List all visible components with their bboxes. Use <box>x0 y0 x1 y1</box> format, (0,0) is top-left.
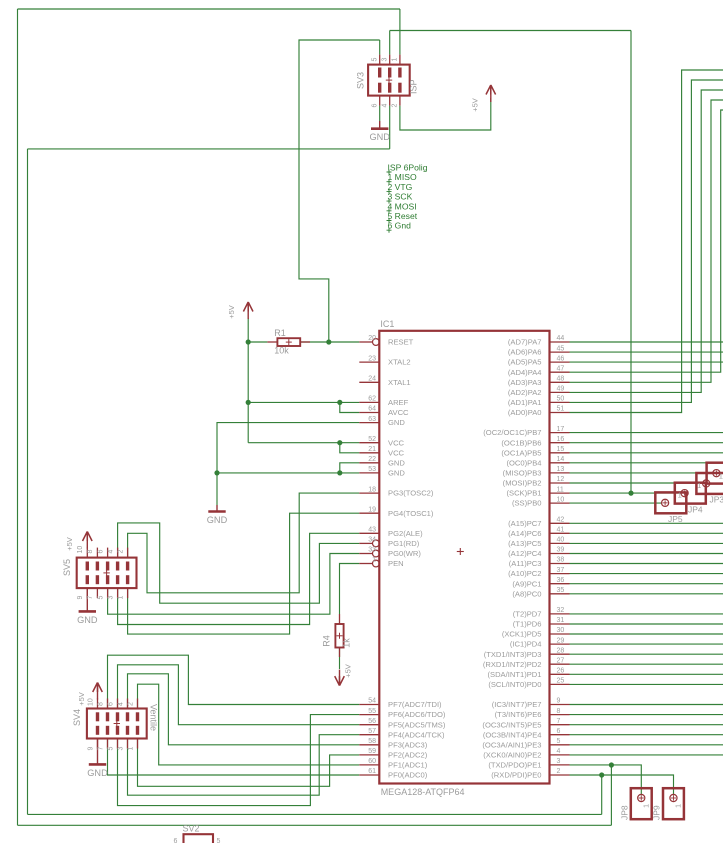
svg-text:5: 5 <box>557 738 561 745</box>
wire net PG2 SV5pin3 <box>118 533 360 624</box>
svg-text:XTAL1: XTAL1 <box>388 378 411 387</box>
svg-text:1: 1 <box>127 747 134 751</box>
junction GND left vertical <box>214 470 219 475</box>
svg-text:39: 39 <box>557 547 565 554</box>
IC1 pin 1 PEN <box>359 557 403 568</box>
SV4 pin number 5 <box>107 747 114 751</box>
svg-text:63: 63 <box>368 416 376 423</box>
svg-text:5: 5 <box>372 58 379 62</box>
IC1 pin 19 PG4(TOSC1) <box>359 506 434 517</box>
svg-text:24: 24 <box>368 376 376 383</box>
R1 name label <box>274 328 286 338</box>
wire PB6 row <box>570 442 723 444</box>
svg-text:1k: 1k <box>342 638 352 648</box>
SV4 value Ventile label <box>149 704 159 731</box>
svg-text:(SDA/INT1)PD1: (SDA/INT1)PD1 <box>487 670 541 679</box>
IC1 pin 21 VCC <box>359 446 404 457</box>
wire PC7 row <box>570 522 723 524</box>
svg-text:XTAL2: XTAL2 <box>388 358 411 367</box>
svg-text:51: 51 <box>557 406 565 413</box>
svg-text:R4: R4 <box>322 635 332 647</box>
svg-text:29: 29 <box>557 637 565 644</box>
svg-text:53: 53 <box>368 466 376 473</box>
IC1 pin 6 (OC3B/INT4)PE4 <box>483 728 570 739</box>
IC1 pin 14 (OC0)PB4 <box>506 456 569 467</box>
IC1 pin 39 (A12)PC4 <box>508 547 569 558</box>
wire net PEN to R4 <box>340 564 360 615</box>
wire PA6 row to edge <box>570 351 723 353</box>
IC1 pin 7 (OC3C/INT5)PE5 <box>482 718 569 729</box>
wire SV3 pin1 to MISO net <box>399 9 401 55</box>
svg-text:38: 38 <box>557 557 565 564</box>
svg-text:(SCL/INT0)PD0: (SCL/INT0)PD0 <box>488 680 541 689</box>
wire VCC row pin52 <box>248 442 359 444</box>
connector SV2 body (clipped) <box>184 834 214 843</box>
svg-text:(AD7)PA7: (AD7)PA7 <box>508 338 542 347</box>
jumper JP8 <box>620 788 652 820</box>
svg-text:(TXD/PDO)PE1: (TXD/PDO)PE1 <box>488 761 541 770</box>
SV4 pin number 10 <box>87 698 94 706</box>
wire net MISO bottom horizontal <box>18 824 612 826</box>
IC1 pin 9 (IC3/INT7)PE7 <box>492 698 570 709</box>
IC1 pin 4 (XCK0/AIN0)PE2 <box>483 748 569 759</box>
svg-text:6 Gnd: 6 Gnd <box>388 221 412 231</box>
svg-text:27: 27 <box>557 657 565 664</box>
wire PD0 row <box>570 683 723 685</box>
jumper JP5 <box>655 491 686 524</box>
svg-text:(A14)PC6: (A14)PC6 <box>508 529 541 538</box>
wire PC3 row <box>570 563 723 565</box>
svg-text:GND: GND <box>369 132 390 142</box>
svg-text:(SCK)PB1: (SCK)PB1 <box>506 489 541 498</box>
svg-text:(A10)PC2: (A10)PC2 <box>508 569 541 578</box>
svg-text:20: 20 <box>368 335 376 342</box>
svg-text:SV2: SV2 <box>183 824 200 834</box>
wire net RESET top horizontal <box>299 40 380 342</box>
svg-text:PG4(TOSC1): PG4(TOSC1) <box>388 509 434 518</box>
svg-text:MEGA128-ATQFP64: MEGA128-ATQFP64 <box>381 787 465 797</box>
SV4 pin number 6 <box>107 702 114 706</box>
svg-text:1 MISO: 1 MISO <box>388 172 417 182</box>
svg-text:55: 55 <box>368 708 376 715</box>
svg-text:(OC3B/INT4)PE4: (OC3B/INT4)PE4 <box>483 730 542 739</box>
svg-text:40: 40 <box>557 537 565 544</box>
svg-text:GND: GND <box>87 768 108 778</box>
wire PA3 row corner <box>570 100 723 382</box>
IC1 pin 2 (RXD/PDI)PE0 <box>491 768 569 779</box>
wire net PG4 SV5pin1 <box>128 513 360 634</box>
svg-text:(AD2)PA2: (AD2)PA2 <box>508 388 542 397</box>
connector SV5 body <box>77 548 137 599</box>
wire net MOSI riser to PE0 row <box>601 775 603 814</box>
wire PC6 row <box>570 532 723 534</box>
+5V supply near ISP <box>471 85 496 112</box>
svg-text:(MOSI)PB2: (MOSI)PB2 <box>503 479 542 488</box>
svg-text:6: 6 <box>107 702 114 706</box>
IC1 pin 3 (TXD/PDO)PE1 <box>488 758 569 769</box>
IC1 pin 22 GND <box>359 456 405 467</box>
wire AVCC drop <box>340 402 360 412</box>
svg-text:56: 56 <box>368 718 376 725</box>
wire net MISO top horizontal <box>18 8 401 10</box>
svg-text:(SS)PB0: (SS)PB0 <box>512 499 542 508</box>
wire PC5 row <box>570 542 723 544</box>
IC1 pin 25 (SCL/INT0)PD0 <box>488 678 569 689</box>
SV5 pin number 6 <box>97 550 104 554</box>
wire GND drop pin22 <box>340 463 360 473</box>
svg-text:5: 5 <box>217 838 221 843</box>
svg-text:(A9)PC1: (A9)PC1 <box>512 579 541 588</box>
wire PB0 row to JP5 <box>570 502 662 504</box>
connector SV3 ISP header body <box>368 55 410 106</box>
svg-text:6: 6 <box>557 728 561 735</box>
wire net MISO riser to PE1 row <box>610 765 612 825</box>
text label 4 MOSI <box>387 201 417 213</box>
svg-text:3: 3 <box>382 58 389 62</box>
svg-text:VCC: VCC <box>388 448 405 457</box>
svg-text:(A13)PC5: (A13)PC5 <box>508 539 541 548</box>
svg-text:(A8)PC0: (A8)PC0 <box>512 589 541 598</box>
wire PE2 row <box>570 754 723 756</box>
svg-text:IC1: IC1 <box>380 319 394 329</box>
SV4 pin number 8 <box>97 702 104 706</box>
svg-text:(RXD/PDI)PE0: (RXD/PDI)PE0 <box>491 771 541 780</box>
IC1 pin 56 PF5(ADC5/TMS) <box>359 718 446 729</box>
wire net MOSI left vertical <box>27 149 29 815</box>
svg-text:30: 30 <box>557 627 565 634</box>
junction MOSI on PE0 row <box>599 772 604 777</box>
text label 5 Reset <box>387 211 418 223</box>
wire net SCK vertical <box>630 31 632 494</box>
IC1 pin 55 PF6(ADC6/TDO) <box>359 708 446 719</box>
svg-text:+5V: +5V <box>65 537 74 551</box>
wire SV3 pin3 to SCK net <box>389 31 391 55</box>
svg-text:+5V: +5V <box>77 692 86 706</box>
wire SV3 pin5 to RESET net <box>379 40 381 55</box>
svg-text:2: 2 <box>127 702 134 706</box>
SV2 name label <box>183 824 200 834</box>
IC1 pin 28 (TXD1/INT3)PD3 <box>484 647 570 658</box>
svg-text:(AD4)PA4: (AD4)PA4 <box>508 368 542 377</box>
wire net MOSI horizontal y149 <box>28 148 390 150</box>
wire PC1 row <box>570 583 723 585</box>
svg-text:35: 35 <box>557 587 565 594</box>
IC1 pin 62 AREF <box>359 396 408 407</box>
svg-text:1: 1 <box>673 804 682 808</box>
IC1 pin 10 (SS)PB0 <box>512 496 570 507</box>
svg-text:36: 36 <box>557 577 565 584</box>
SV5 pin number 3 <box>107 596 114 600</box>
svg-text:5 Reset: 5 Reset <box>388 211 418 221</box>
svg-text:PF3(ADC3): PF3(ADC3) <box>388 740 428 749</box>
wire net PF4 SV4pin3 <box>128 735 360 796</box>
wire PA1 row corner <box>570 80 723 402</box>
svg-text:(OC2/OC1C)PB7: (OC2/OC1C)PB7 <box>483 428 541 437</box>
svg-text:GND: GND <box>388 469 405 478</box>
svg-text:45: 45 <box>557 345 565 352</box>
IC1 pin 5 (OC3A/AIN1)PE3 <box>482 738 569 749</box>
IC1 pin 16 (OC1B)PB6 <box>501 436 569 447</box>
svg-text:22: 22 <box>368 456 376 463</box>
svg-text:PF0(ADC0): PF0(ADC0) <box>388 771 428 780</box>
svg-text:PG3(TOSC2): PG3(TOSC2) <box>388 489 434 498</box>
svg-text:44: 44 <box>557 335 565 342</box>
svg-text:(XCK1)PD5: (XCK1)PD5 <box>502 630 542 639</box>
IC1 pin 15 (OC1A)PB5 <box>501 446 569 457</box>
jumper JP3 <box>696 471 723 504</box>
svg-text:R1: R1 <box>274 328 286 338</box>
svg-text:41: 41 <box>557 527 565 534</box>
svg-text:7: 7 <box>97 747 104 751</box>
IC1 pin 24 XTAL1 <box>359 376 410 387</box>
text label 3 SCK <box>387 192 413 204</box>
svg-text:1: 1 <box>697 481 701 490</box>
SV3 pin number 5 <box>372 58 379 62</box>
svg-text:(OC0)PB4: (OC0)PB4 <box>506 458 541 467</box>
wire net VTG from SV3 pin2 <box>400 98 491 130</box>
ground at SV4 <box>87 739 108 779</box>
ground at SV5 <box>77 588 98 625</box>
wire PA4 row corner <box>570 110 723 372</box>
wire PC0 row <box>570 593 723 595</box>
IC1 pin 31 (T1)PD6 <box>513 617 570 628</box>
IC1 pin 38 (A11)PC3 <box>509 557 570 568</box>
text label 1 MISO <box>387 172 417 184</box>
wire SV3 pin6 to GND <box>379 106 381 121</box>
junction +5V at R1 left <box>246 339 251 344</box>
wire net PG3 SV5pin2 <box>128 493 360 593</box>
SV5 pin number 1 <box>117 596 124 600</box>
svg-text:2: 2 <box>392 104 399 108</box>
IC1 pin 64 AVCC <box>359 406 409 417</box>
jumper JP9 <box>652 788 684 820</box>
svg-text:61: 61 <box>368 768 376 775</box>
wire PD5 row <box>570 633 723 635</box>
IC1 pin 40 (A13)PC5 <box>508 537 569 548</box>
SV4 pin number 3 <box>117 747 124 751</box>
wire net SCK top horizontal <box>390 30 631 32</box>
svg-text:(A15)PC7: (A15)PC7 <box>508 519 541 528</box>
svg-text:4 MOSI: 4 MOSI <box>388 201 417 211</box>
svg-text:(AD5)PA5: (AD5)PA5 <box>508 358 542 367</box>
wire PC2 row <box>570 573 723 575</box>
svg-text:9: 9 <box>77 596 84 600</box>
svg-text:3: 3 <box>557 758 561 765</box>
IC1 pin 32 (T2)PD7 <box>513 607 570 618</box>
IC1 pin 42 (A15)PC7 <box>508 517 569 528</box>
svg-text:1: 1 <box>372 557 376 564</box>
IC1 pin 52 VCC <box>359 436 404 447</box>
svg-text:8: 8 <box>87 550 94 554</box>
IC1 pin 63 GND <box>359 416 405 427</box>
svg-text:3 SCK: 3 SCK <box>388 192 413 202</box>
svg-text:(AD3)PA3: (AD3)PA3 <box>508 378 542 387</box>
svg-text:43: 43 <box>368 527 376 534</box>
svg-text:+5V: +5V <box>344 664 353 678</box>
svg-text:(T2)PD7: (T2)PD7 <box>513 610 542 619</box>
svg-text:54: 54 <box>368 698 376 705</box>
svg-text:47: 47 <box>557 365 565 372</box>
wire PD7 row <box>570 613 723 615</box>
svg-text:(TXD1/INT3)PD3: (TXD1/INT3)PD3 <box>484 650 542 659</box>
IC1 pin 17 (OC2/OC1C)PB7 <box>483 426 569 437</box>
SV5 pin number 10 <box>77 546 84 554</box>
wire net PG0 SV5pin5 <box>108 554 360 615</box>
svg-text:42: 42 <box>557 517 565 524</box>
svg-text:2 VTG: 2 VTG <box>388 182 413 192</box>
svg-text:50: 50 <box>557 396 565 403</box>
IC1 pin 44 (AD7)PA7 <box>508 335 570 346</box>
svg-text:(IC3/INT7)PE7: (IC3/INT7)PE7 <box>492 700 542 709</box>
IC1 pin 48 (AD3)PA3 <box>508 376 570 387</box>
IC1 pin 51 (AD0)PA0 <box>508 406 570 417</box>
IC1 pin 61 PF0(ADC0) <box>359 768 427 779</box>
svg-text:31: 31 <box>557 617 565 624</box>
wire PA5 row to edge <box>570 361 723 363</box>
svg-text:58: 58 <box>368 738 376 745</box>
svg-text:JP5: JP5 <box>668 514 683 524</box>
wire net MISO left vertical <box>17 9 19 825</box>
svg-text:10: 10 <box>557 496 565 503</box>
svg-text:46: 46 <box>557 355 565 362</box>
svg-text:9: 9 <box>87 747 94 751</box>
wire VCC drop pin21 <box>340 443 360 453</box>
svg-text:2: 2 <box>117 550 124 554</box>
IC1 pin 54 PF7(ADC7/TDI) <box>359 698 442 709</box>
svg-text:ISP 6Polig: ISP 6Polig <box>388 163 428 173</box>
IC1 pin 35 (A8)PC0 <box>512 587 569 598</box>
wire net PF3 SV4pin4 <box>128 674 360 745</box>
svg-text:(OC3C/INT5)PE5: (OC3C/INT5)PE5 <box>482 720 541 729</box>
svg-text:PG0(WR): PG0(WR) <box>388 549 421 558</box>
wire PB5 row <box>570 452 723 454</box>
IC1 value label <box>381 787 465 797</box>
svg-text:25: 25 <box>557 678 565 685</box>
svg-text:(A11)PC3: (A11)PC3 <box>509 559 542 568</box>
svg-text:1: 1 <box>392 58 399 62</box>
svg-text:23: 23 <box>368 355 376 362</box>
IC1 pin 12 (MOSI)PB2 <box>503 476 570 487</box>
wire PE0 row to JP9 <box>570 775 674 795</box>
SV3 name label <box>356 72 366 89</box>
svg-text:4: 4 <box>117 702 124 706</box>
+5V supply at SV5 <box>65 532 92 551</box>
svg-text:6: 6 <box>372 104 379 108</box>
svg-text:GND: GND <box>207 515 228 525</box>
svg-text:PF5(ADC5/TMS): PF5(ADC5/TMS) <box>388 720 446 729</box>
svg-text:(AD1)PA1: (AD1)PA1 <box>508 398 542 407</box>
svg-text:GND: GND <box>388 458 405 467</box>
IC1 pin 47 (AD4)PA4 <box>508 365 570 376</box>
svg-text:10: 10 <box>87 698 94 706</box>
SV2 pin number 6 <box>174 838 178 843</box>
IC1 MEGA128 body <box>379 331 549 784</box>
text label 2 VTG <box>387 182 413 194</box>
wire PD2 row <box>570 663 723 665</box>
SV3 pin number 2 <box>392 104 399 108</box>
svg-text:64: 64 <box>368 406 376 413</box>
R4 name label <box>322 635 332 647</box>
svg-text:ISP: ISP <box>409 79 419 94</box>
svg-text:PF1(ADC1): PF1(ADC1) <box>388 761 428 770</box>
SV5 pin number 8 <box>87 550 94 554</box>
svg-text:13: 13 <box>557 466 565 473</box>
wire net PG1 SV5pin4 <box>118 523 360 603</box>
IC1 pin 18 PG3(TOSC2) <box>359 486 434 497</box>
wire PA2 row corner <box>570 90 723 392</box>
SV4 pin number 7 <box>97 747 104 751</box>
svg-text:7: 7 <box>87 596 94 600</box>
wire net PF7 SV4pin8 <box>108 655 360 708</box>
svg-text:(A12)PC4: (A12)PC4 <box>508 549 541 558</box>
svg-text:33: 33 <box>368 547 376 554</box>
SV5 pin number 4 <box>107 550 114 554</box>
wire net PF5 SV4pin6 <box>118 665 360 725</box>
R1 value 10k <box>274 346 289 356</box>
wire net MOSI bottom horizontal <box>28 813 602 815</box>
IC1 pin 43 PG2(ALE) <box>359 527 423 538</box>
svg-text:52: 52 <box>368 436 376 443</box>
+5V supply below R4 <box>335 664 353 685</box>
IC1 pin 50 (AD1)PA1 <box>508 396 570 407</box>
wire GND row pin63 <box>217 423 359 505</box>
svg-text:JP3: JP3 <box>710 495 723 505</box>
IC1 pin 59 PF2(ADC2) <box>359 748 427 759</box>
IC1 pin 23 XTAL2 <box>359 355 410 366</box>
svg-text:8: 8 <box>557 708 561 715</box>
svg-text:18: 18 <box>368 486 376 493</box>
svg-text:4: 4 <box>107 550 114 554</box>
svg-text:PF6(ADC6/TDO): PF6(ADC6/TDO) <box>388 710 446 719</box>
SV3 pin number 4 <box>382 104 389 108</box>
svg-text:60: 60 <box>368 758 376 765</box>
svg-text:15: 15 <box>557 446 565 453</box>
svg-text:5: 5 <box>107 747 114 751</box>
SV4 pin number 2 <box>127 702 134 706</box>
svg-text:AREF: AREF <box>388 398 409 407</box>
svg-text:PF2(ADC2): PF2(ADC2) <box>388 751 428 760</box>
SV3 pin number 3 <box>382 58 389 62</box>
svg-text:48: 48 <box>557 376 565 383</box>
IC1 pin 26 (SDA/INT1)PD1 <box>487 668 569 679</box>
svg-text:3: 3 <box>117 747 124 751</box>
IC1 pin 13 (MISO)PB3 <box>503 466 570 477</box>
svg-text:(T3/INT6)PE6: (T3/INT6)PE6 <box>495 710 542 719</box>
svg-text:6: 6 <box>97 550 104 554</box>
IC1 pin 45 (AD6)PA6 <box>508 345 570 356</box>
svg-text:AVCC: AVCC <box>388 408 409 417</box>
svg-text:JP4: JP4 <box>688 504 703 514</box>
junction RESET at R1 right <box>326 339 331 344</box>
svg-text:RESET: RESET <box>388 338 414 347</box>
wire PB1 row to JP4 <box>570 492 681 494</box>
wire PE6 row <box>570 714 723 716</box>
svg-text:5: 5 <box>97 596 104 600</box>
junction GND22 tap <box>337 470 342 475</box>
ground at SV3 <box>369 121 390 142</box>
svg-text:4: 4 <box>382 104 389 108</box>
svg-text:57: 57 <box>368 728 376 735</box>
svg-text:10: 10 <box>77 546 84 554</box>
IC1 pin 58 PF3(ADC3) <box>359 738 427 749</box>
IC1 pin 49 (AD2)PA2 <box>508 386 570 397</box>
svg-text:37: 37 <box>557 567 565 574</box>
SV3 pin number 6 <box>372 104 379 108</box>
svg-text:49: 49 <box>557 386 565 393</box>
svg-text:PG1(RD): PG1(RD) <box>388 539 420 548</box>
wire AREF row <box>248 401 359 403</box>
svg-text:7: 7 <box>557 718 561 725</box>
